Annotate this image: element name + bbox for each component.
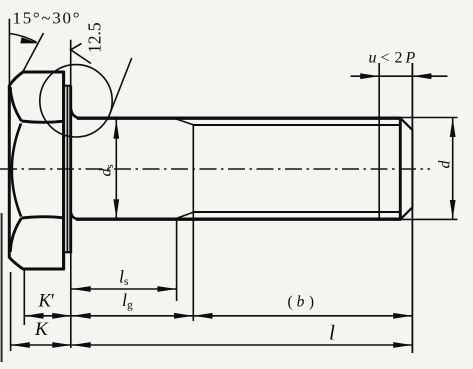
under-head fillet top: [71, 109, 80, 119]
hex head left face: [8, 85, 11, 258]
washer face front line: [69, 86, 72, 254]
middle facet top arc: [22, 121, 64, 122]
svg-text:l: l: [329, 321, 335, 345]
u left arrow (outside pointing right): [360, 73, 379, 79]
hex head top edge: [23, 70, 65, 73]
u dimension line: [351, 75, 448, 77]
u right arrow (outside pointing left): [412, 73, 431, 79]
K prime dimension line: [24, 315, 71, 317]
tip extension line: [411, 63, 413, 353]
angle extension line above head: [8, 19, 10, 85]
u dimension extension line (last full thread): [378, 63, 380, 219]
middle facet left arc: [12, 124, 21, 217]
b dimension line: [193, 315, 412, 317]
ls right arrow: [157, 286, 176, 292]
angle leader line 15-30 deg: [23, 33, 44, 72]
hex head right face: [62, 71, 65, 270]
middle facet bottom arc: [22, 217, 64, 218]
K dimension line: [11, 344, 72, 346]
lg right arrow: [174, 313, 193, 319]
under-head fillet bottom: [71, 213, 79, 220]
lg left arrow: [72, 313, 91, 319]
top facet steep arc: [10, 87, 21, 121]
thread runout bottom diagonal: [174, 212, 194, 219]
shank/thread major bottom line: [76, 217, 401, 220]
lg dimension line: [72, 315, 194, 317]
shank/thread major top line: [77, 116, 401, 119]
ls dimension line: [72, 288, 177, 290]
K left arrow: [11, 342, 30, 348]
d bottom arrow: [450, 200, 456, 219]
washer rear line: [66, 86, 68, 252]
d extension top line: [400, 117, 458, 119]
thread minor bottom line: [194, 211, 401, 213]
d dimension line: [452, 118, 454, 220]
hex head bottom-left chamfer: [9, 258, 23, 270]
tip end face line: [411, 130, 413, 207]
svg-text:K: K: [34, 319, 49, 340]
d extension bottom line: [400, 218, 458, 220]
l left arrow: [72, 342, 91, 348]
l right arrow: [393, 342, 412, 348]
angle dimension arc: [10, 34, 37, 43]
b right arrow: [393, 313, 412, 319]
chamfer cone line at tip: [399, 118, 402, 219]
tip chamfer bottom diagonal: [401, 207, 413, 219]
ls left arrow: [72, 286, 91, 292]
ds dimension line: [115, 120, 117, 219]
thread minor top line: [194, 124, 401, 126]
roughness leg on shank surface: [108, 58, 132, 119]
extension line ls end: [176, 220, 178, 302]
b left arrow: [194, 313, 213, 319]
bottom facet steep arc: [10, 218, 21, 252]
K right arrow: [52, 342, 71, 348]
roughness symbol on washer face (rotated): [71, 44, 91, 64]
extension line K prime: [23, 269, 25, 325]
extension line lg end / full thread: [192, 125, 194, 321]
svg-text:12.5: 12.5: [85, 22, 105, 53]
centerline (bolt axis, dash-dot): [0, 168, 430, 170]
svg-text:15°~30°: 15°~30°: [13, 9, 82, 28]
washer bottom cap: [64, 251, 71, 253]
svg-text:K′: K′: [38, 292, 55, 312]
svg-text:(b): (b): [288, 294, 315, 311]
ds bottom arrow: [113, 199, 119, 218]
tip chamfer top diagonal: [401, 118, 413, 130]
washer face extension line above head: [70, 40, 72, 86]
K prime left arrow: [25, 313, 44, 319]
extension line head left face down: [10, 272, 12, 351]
scan edge artifact line at far left: [1, 213, 3, 362]
svg-text:d: d: [437, 160, 454, 169]
thread runout top diagonal: [174, 118, 194, 125]
d top arrow: [450, 118, 456, 137]
angle arc arrowhead: [20, 37, 39, 43]
extension line bearing face down: [70, 253, 72, 348]
l dimension line: [72, 344, 413, 346]
hex head bottom edge: [23, 267, 65, 270]
hex head top-left chamfer: [9, 72, 23, 86]
washer top cap: [64, 85, 71, 87]
detail circle: [40, 65, 112, 137]
K prime right arrow: [52, 313, 71, 319]
ds top arrow: [113, 120, 119, 139]
